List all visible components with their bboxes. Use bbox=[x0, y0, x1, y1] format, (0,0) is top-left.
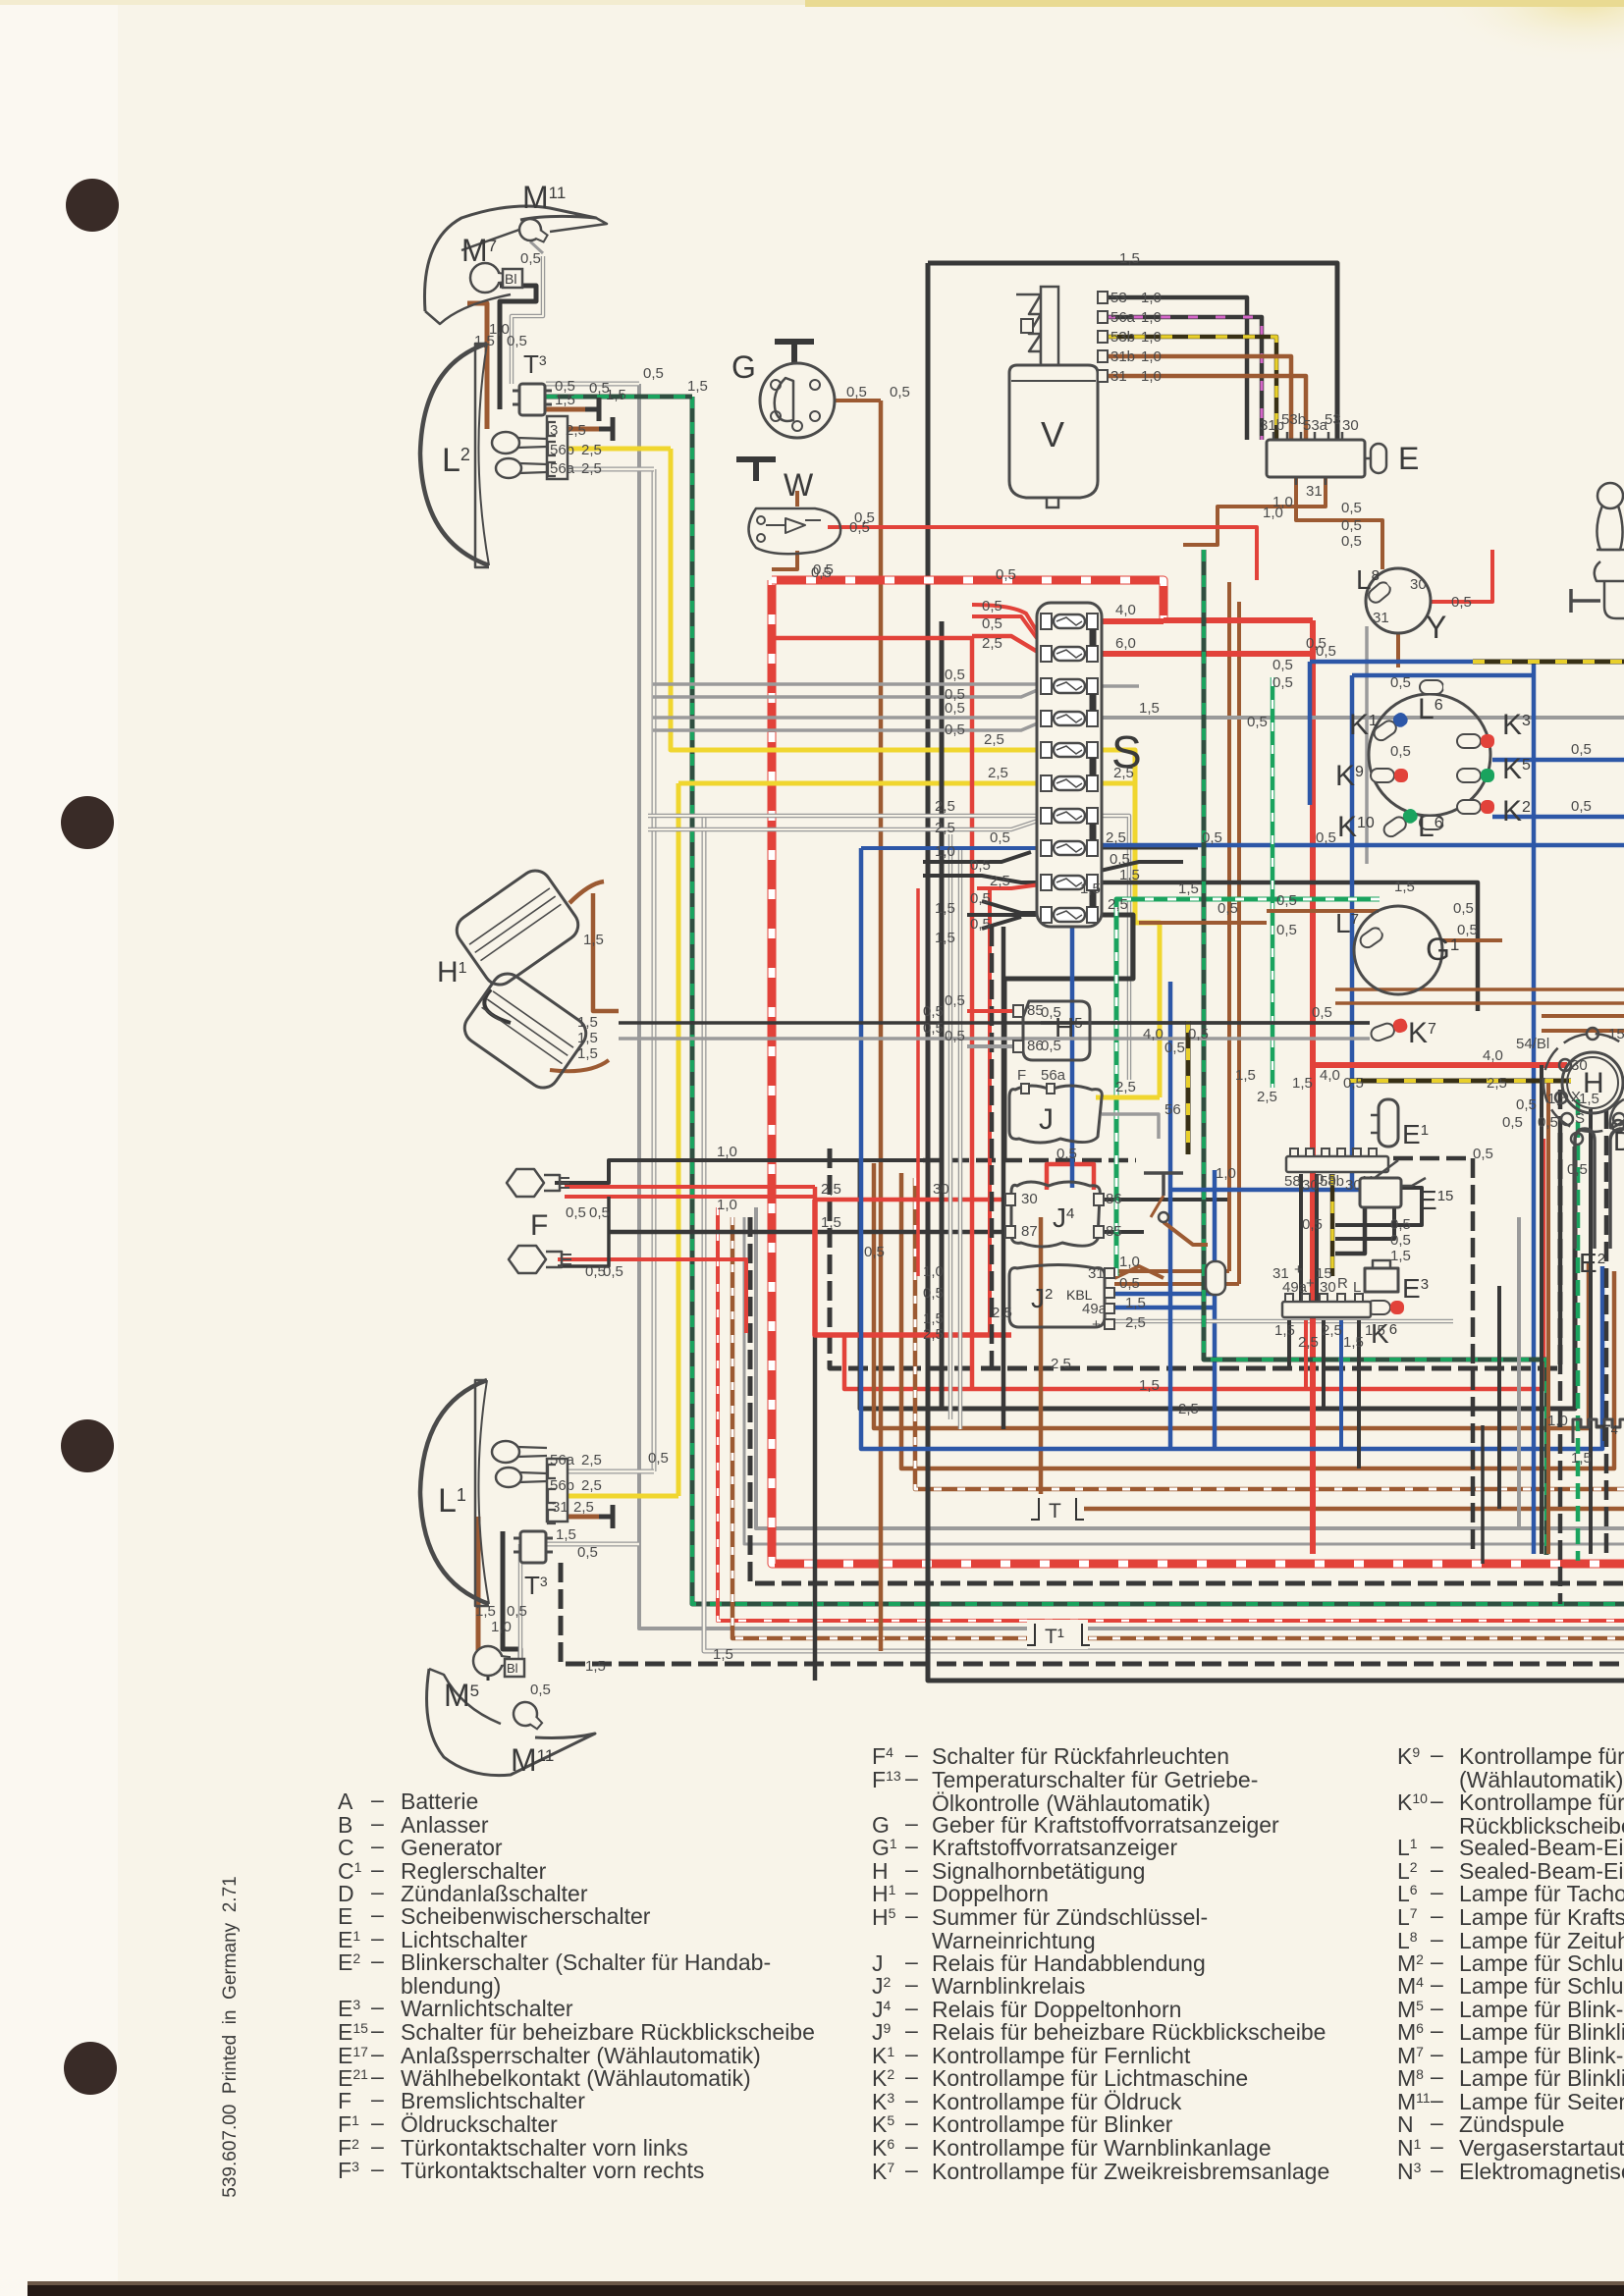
svg-text:Warnlichtschalter: Warnlichtschalter bbox=[401, 1996, 573, 2021]
svg-text:Warnblinkrelais: Warnblinkrelais bbox=[932, 1973, 1085, 1999]
svg-text:–: – bbox=[1431, 2017, 1443, 2043]
svg-text:Zündspule: Zündspule bbox=[1459, 2111, 1564, 2137]
svg-text:0,5: 0,5 bbox=[1188, 1026, 1209, 1042]
svg-text:Kontrollampe für Lichtmaschine: Kontrollampe für Lichtmaschine bbox=[932, 2065, 1248, 2091]
svg-text:V: V bbox=[1041, 414, 1064, 454]
svg-text:Kontrollampe für beheizbare: Kontrollampe für beheizbare bbox=[1459, 1789, 1624, 1815]
svg-text:–: – bbox=[905, 2157, 918, 2182]
svg-text:31: 31 bbox=[1306, 483, 1323, 500]
svg-text:0,5: 0,5 bbox=[1451, 594, 1472, 611]
svg-text:Schalter für Rückfahrleuchten: Schalter für Rückfahrleuchten bbox=[932, 1743, 1229, 1769]
svg-text:56a: 56a bbox=[1110, 309, 1136, 326]
svg-text:–: – bbox=[905, 2109, 918, 2135]
svg-text:0,5: 0,5 bbox=[1473, 1146, 1493, 1162]
svg-text:4,0: 4,0 bbox=[1320, 1067, 1340, 1084]
svg-text:2,5: 2,5 bbox=[1178, 1401, 1199, 1417]
svg-text:0,5: 0,5 bbox=[1457, 922, 1478, 938]
svg-text:0,5: 0,5 bbox=[846, 384, 867, 400]
svg-text:–: – bbox=[371, 1787, 384, 1812]
svg-text:A: A bbox=[338, 1789, 353, 1814]
svg-text:1,5: 1,5 bbox=[1292, 1075, 1313, 1092]
svg-text:2,5: 2,5 bbox=[935, 820, 955, 836]
svg-text:0,5: 0,5 bbox=[1056, 1146, 1077, 1162]
svg-text:31: 31 bbox=[1272, 1265, 1289, 1282]
svg-text:1,5: 1,5 bbox=[1139, 700, 1160, 717]
svg-text:0,5: 0,5 bbox=[1571, 798, 1592, 815]
svg-text:15: 15 bbox=[1608, 1026, 1624, 1042]
svg-text:–: – bbox=[371, 2156, 384, 2181]
svg-text:0,5: 0,5 bbox=[589, 1204, 610, 1221]
svg-text:1,5: 1,5 bbox=[1365, 1322, 1385, 1339]
svg-text:Schalter für beheizbare Rückbl: Schalter für beheizbare Rückblickscheibe bbox=[401, 2019, 815, 2045]
svg-text:0,5: 0,5 bbox=[970, 890, 991, 907]
svg-text:G: G bbox=[731, 349, 756, 385]
svg-text:–: – bbox=[905, 1971, 918, 1997]
svg-text:1,0: 1,0 bbox=[1272, 494, 1293, 510]
svg-text:0,5: 0,5 bbox=[507, 1603, 527, 1620]
svg-text:Türkontaktschalter vorn rechts: Türkontaktschalter vorn rechts bbox=[401, 2158, 704, 2183]
svg-text:2,5: 2,5 bbox=[573, 1499, 594, 1516]
svg-text:1,5: 1,5 bbox=[475, 1603, 496, 1620]
svg-text:2,5: 2,5 bbox=[581, 1452, 602, 1468]
svg-text:0,5: 0,5 bbox=[1218, 900, 1238, 917]
svg-text:2,5: 2,5 bbox=[1106, 829, 1126, 846]
svg-text:58: 58 bbox=[1284, 1173, 1301, 1190]
svg-text:31: 31 bbox=[1110, 368, 1127, 385]
svg-text:6,0: 6,0 bbox=[1115, 635, 1136, 652]
svg-text:1,0: 1,0 bbox=[923, 1263, 944, 1280]
svg-text:2,5: 2,5 bbox=[988, 765, 1008, 781]
svg-text:0,5: 0,5 bbox=[1272, 657, 1293, 673]
svg-text:Doppelhorn: Doppelhorn bbox=[932, 1881, 1049, 1906]
svg-text:0,5: 0,5 bbox=[530, 1682, 551, 1698]
svg-text:Sealed-Beam-Einsatz links: Sealed-Beam-Einsatz links bbox=[1459, 1835, 1624, 1860]
svg-text:53: 53 bbox=[1110, 290, 1127, 306]
svg-text:3: 3 bbox=[550, 422, 558, 439]
svg-text:–: – bbox=[1431, 1788, 1443, 1813]
svg-text:56a: 56a bbox=[1041, 1067, 1066, 1084]
svg-text:0,5: 0,5 bbox=[643, 365, 664, 382]
svg-text:Lampe für Blinklicht vorn link: Lampe für Blinklicht vorn links bbox=[1459, 2019, 1624, 2045]
svg-text:Lampe für Blinklicht vorn rech: Lampe für Blinklicht vorn rechts bbox=[1459, 2065, 1624, 2091]
svg-text:–: – bbox=[905, 1902, 918, 1928]
svg-text:1,5: 1,5 bbox=[687, 378, 708, 395]
svg-text:1,0: 1,0 bbox=[935, 843, 955, 860]
svg-text:0,5: 0,5 bbox=[1110, 851, 1130, 868]
svg-text:0,5: 0,5 bbox=[1302, 1216, 1323, 1233]
svg-text:1,5: 1,5 bbox=[1547, 1091, 1568, 1107]
svg-text:Kraftstoffvorratsanzeiger: Kraftstoffvorratsanzeiger bbox=[932, 1835, 1177, 1860]
svg-text:0,5: 0,5 bbox=[1316, 643, 1336, 660]
svg-text:1,5: 1,5 bbox=[923, 1310, 944, 1327]
svg-text:Kontrollampe für Blinker: Kontrollampe für Blinker bbox=[932, 2111, 1173, 2137]
svg-text:0,5: 0,5 bbox=[1390, 1216, 1411, 1233]
svg-text:Relais für beheizbare Rückblic: Relais für beheizbare Rückblickscheibe bbox=[932, 2019, 1326, 2045]
svg-text:1,5: 1,5 bbox=[1178, 881, 1199, 897]
svg-text:J: J bbox=[1039, 1103, 1054, 1136]
svg-text:31: 31 bbox=[1373, 610, 1389, 626]
svg-text:1,0: 1,0 bbox=[717, 1144, 737, 1160]
svg-text:1,0: 1,0 bbox=[1216, 1165, 1236, 1182]
svg-text:1,5: 1,5 bbox=[1139, 1377, 1160, 1394]
svg-text:85: 85 bbox=[1106, 1223, 1122, 1240]
svg-text:0,5: 0,5 bbox=[1502, 1114, 1523, 1131]
svg-text:T: T bbox=[1049, 1500, 1061, 1522]
svg-text:0,5: 0,5 bbox=[970, 857, 991, 874]
svg-text:0,5: 0,5 bbox=[923, 1020, 944, 1037]
svg-text:–: – bbox=[905, 1833, 918, 1858]
svg-text:R: R bbox=[1337, 1275, 1348, 1292]
svg-text:30: 30 bbox=[1342, 417, 1359, 434]
svg-text:0,5: 0,5 bbox=[1316, 1171, 1336, 1188]
svg-text:–: – bbox=[371, 2017, 384, 2043]
svg-text:1,5: 1,5 bbox=[1119, 867, 1140, 883]
svg-text:1,5: 1,5 bbox=[1080, 881, 1101, 897]
svg-text:1,5: 1,5 bbox=[1394, 879, 1415, 895]
svg-text:0,5: 0,5 bbox=[945, 721, 965, 738]
svg-text:2,5: 2,5 bbox=[923, 1326, 944, 1343]
svg-text:2,5: 2,5 bbox=[1125, 1314, 1146, 1331]
svg-text:2,5: 2,5 bbox=[1113, 765, 1134, 781]
svg-text:1,0: 1,0 bbox=[1547, 1413, 1568, 1429]
svg-text:Bremslichtschalter: Bremslichtschalter bbox=[401, 2088, 585, 2113]
svg-text:–: – bbox=[1431, 2063, 1443, 2089]
svg-text:0,5: 0,5 bbox=[864, 1244, 885, 1260]
svg-text:1,5: 1,5 bbox=[1235, 1067, 1256, 1084]
svg-text:Generator: Generator bbox=[401, 1835, 503, 1860]
svg-text:1,5: 1,5 bbox=[606, 387, 626, 403]
svg-text:0,5: 0,5 bbox=[1276, 922, 1297, 938]
svg-text:Bl: Bl bbox=[505, 271, 516, 287]
svg-text:0,5: 0,5 bbox=[1164, 1040, 1185, 1056]
svg-text:1,0: 1,0 bbox=[1141, 329, 1162, 346]
svg-text:–: – bbox=[1431, 1833, 1443, 1858]
svg-text:E: E bbox=[1398, 441, 1419, 476]
svg-text:0,5: 0,5 bbox=[854, 509, 875, 526]
svg-text:87: 87 bbox=[1021, 1223, 1038, 1240]
svg-text:1,5: 1,5 bbox=[556, 1526, 576, 1543]
svg-text:+: + bbox=[1092, 1316, 1101, 1333]
svg-text:0,5: 0,5 bbox=[945, 700, 965, 717]
svg-text:2,5: 2,5 bbox=[821, 1181, 841, 1198]
svg-text:1,5: 1,5 bbox=[577, 1014, 598, 1031]
svg-text:56: 56 bbox=[1164, 1101, 1181, 1118]
svg-text:4,0: 4,0 bbox=[1143, 1026, 1164, 1042]
svg-text:1,0: 1,0 bbox=[717, 1197, 737, 1213]
svg-text:N: N bbox=[1397, 2111, 1414, 2137]
svg-text:1,5: 1,5 bbox=[1343, 1334, 1364, 1351]
svg-text:–: – bbox=[1431, 1741, 1443, 1767]
svg-text:Kontrollampe für Anlaßsperre: Kontrollampe für Anlaßsperre bbox=[1459, 1743, 1624, 1769]
svg-text:Blinkerschalter (Schalter für: Blinkerschalter (Schalter für Handab- bbox=[401, 1949, 771, 1975]
svg-text:0,5: 0,5 bbox=[1202, 829, 1222, 846]
svg-text:Temperaturschalter für Getrieb: Temperaturschalter für Getriebe- bbox=[932, 1767, 1258, 1792]
svg-text:+: + bbox=[1306, 1275, 1315, 1292]
svg-text:W: W bbox=[784, 467, 814, 503]
svg-text:1,5: 1,5 bbox=[935, 930, 955, 946]
svg-text:Kontrollampe für Zweikreisbrem: Kontrollampe für Zweikreisbremsanlage bbox=[932, 2159, 1329, 2184]
svg-text:–: – bbox=[905, 2133, 918, 2159]
svg-text:0,5: 0,5 bbox=[1390, 743, 1411, 760]
svg-text:1,0: 1,0 bbox=[1141, 290, 1162, 306]
svg-text:30: 30 bbox=[1021, 1191, 1038, 1207]
svg-text:F: F bbox=[338, 2088, 352, 2113]
svg-text:4,0: 4,0 bbox=[1483, 1047, 1503, 1064]
svg-text:–: – bbox=[1431, 1879, 1443, 1904]
svg-text:–: – bbox=[1431, 2157, 1443, 2182]
svg-text:Elektromagnetische Abschaltung: Elektromagnetische Abschaltung bbox=[1459, 2159, 1624, 2184]
svg-text:0,5: 0,5 bbox=[970, 916, 991, 933]
svg-text:0,5: 0,5 bbox=[1247, 714, 1268, 730]
svg-text:0,5: 0,5 bbox=[1341, 500, 1362, 516]
svg-text:–: – bbox=[1431, 1971, 1443, 1997]
svg-text:C: C bbox=[338, 1835, 354, 1860]
svg-text:Y: Y bbox=[1426, 610, 1446, 645]
svg-text:–: – bbox=[371, 1901, 384, 1927]
svg-text:Scheibenwischerschalter: Scheibenwischerschalter bbox=[401, 1903, 651, 1929]
svg-text:0,5: 0,5 bbox=[1571, 741, 1592, 758]
svg-text:31b: 31b bbox=[1110, 348, 1135, 365]
svg-text:1,5: 1,5 bbox=[1274, 1322, 1295, 1339]
svg-text:0,5: 0,5 bbox=[1276, 892, 1297, 909]
svg-text:Vergaserstartautomatik: Vergaserstartautomatik bbox=[1459, 2135, 1624, 2161]
svg-text:–: – bbox=[1431, 2133, 1443, 2159]
svg-text:0,5: 0,5 bbox=[1567, 1161, 1588, 1178]
svg-text:0,5: 0,5 bbox=[1316, 829, 1336, 846]
svg-text:539.607.00 Printed in Germa: 539.607.00 Printed in Germany 2.71 bbox=[220, 1876, 241, 2197]
svg-text:Lampe für Tachometerbeleuchtun: Lampe für Tachometerbeleuchtung bbox=[1459, 1881, 1624, 1906]
svg-text:30: 30 bbox=[1410, 576, 1427, 593]
svg-text:–: – bbox=[905, 2017, 918, 2043]
svg-text:2,5: 2,5 bbox=[1322, 1322, 1342, 1339]
svg-text:0,5: 0,5 bbox=[1390, 1232, 1411, 1249]
svg-text:1,5: 1,5 bbox=[585, 1658, 606, 1675]
svg-text:49a: 49a bbox=[1082, 1301, 1108, 1317]
svg-text:–: – bbox=[905, 1879, 918, 1904]
svg-text:31: 31 bbox=[1088, 1265, 1105, 1282]
svg-text:1,5: 1,5 bbox=[577, 1045, 598, 1062]
svg-text:–: – bbox=[371, 2109, 384, 2135]
svg-text:E: E bbox=[338, 1903, 352, 1929]
svg-text:0,5: 0,5 bbox=[1119, 1275, 1140, 1292]
svg-text:2,5: 2,5 bbox=[581, 442, 602, 458]
svg-text:1,5: 1,5 bbox=[1119, 250, 1140, 267]
svg-text:31: 31 bbox=[552, 1499, 568, 1516]
svg-text:15: 15 bbox=[1316, 1265, 1332, 1282]
svg-text:0,5: 0,5 bbox=[1390, 674, 1411, 691]
svg-text:2,5: 2,5 bbox=[982, 635, 1002, 652]
svg-text:56a: 56a bbox=[550, 460, 575, 477]
svg-text:2,5: 2,5 bbox=[581, 1477, 602, 1494]
svg-text:F: F bbox=[1017, 1067, 1026, 1084]
svg-text:Kontrollampe für Warnblinkanla: Kontrollampe für Warnblinkanlage bbox=[932, 2135, 1272, 2161]
svg-text:0,5: 0,5 bbox=[577, 1544, 598, 1561]
svg-text:53b: 53b bbox=[1110, 329, 1135, 346]
svg-text:30: 30 bbox=[933, 1181, 949, 1198]
svg-text:0,5: 0,5 bbox=[945, 667, 965, 683]
svg-text:0,5: 0,5 bbox=[990, 829, 1010, 846]
svg-text:86: 86 bbox=[1106, 1191, 1122, 1207]
svg-text:1,5: 1,5 bbox=[935, 900, 955, 917]
svg-text:0,5: 0,5 bbox=[1341, 517, 1362, 534]
svg-text:1,5: 1,5 bbox=[1579, 1091, 1599, 1107]
svg-text:2,5: 2,5 bbox=[984, 731, 1004, 748]
svg-text:0,5: 0,5 bbox=[1516, 1096, 1537, 1113]
svg-text:2,5: 2,5 bbox=[1108, 896, 1128, 913]
svg-text:1,0: 1,0 bbox=[1119, 1254, 1140, 1270]
svg-text:4,0: 4,0 bbox=[1115, 602, 1136, 618]
svg-text:54/Bl: 54/Bl bbox=[1516, 1036, 1549, 1052]
svg-text:–: – bbox=[371, 2086, 384, 2111]
svg-text:1,5: 1,5 bbox=[577, 1030, 598, 1046]
svg-text:53: 53 bbox=[1325, 411, 1341, 428]
svg-text:2,5: 2,5 bbox=[1115, 1079, 1136, 1095]
svg-text:56b: 56b bbox=[550, 442, 574, 458]
svg-text:Lampe für Kraftstoffanzeige: Lampe für Kraftstoffanzeige bbox=[1459, 1904, 1624, 1930]
svg-text:0,5: 0,5 bbox=[890, 384, 910, 400]
svg-text:1,5: 1,5 bbox=[583, 932, 604, 948]
svg-text:0,5: 0,5 bbox=[1341, 533, 1362, 550]
svg-text:Bl: Bl bbox=[507, 1661, 518, 1676]
svg-text:1,0: 1,0 bbox=[491, 1619, 512, 1635]
svg-text:0,5: 0,5 bbox=[923, 1003, 944, 1020]
svg-text:56b: 56b bbox=[550, 1477, 574, 1494]
svg-text:–: – bbox=[1431, 2109, 1443, 2135]
svg-text:0,5: 0,5 bbox=[1538, 1114, 1558, 1131]
svg-text:2,5: 2,5 bbox=[992, 1305, 1012, 1321]
svg-text:+: + bbox=[1294, 1261, 1303, 1278]
svg-text:0,5: 0,5 bbox=[1272, 674, 1293, 691]
svg-text:0,5: 0,5 bbox=[566, 1204, 586, 1221]
svg-text:1,5: 1,5 bbox=[1125, 1295, 1146, 1311]
svg-text:–: – bbox=[371, 1948, 384, 1973]
svg-text:2,5: 2,5 bbox=[566, 422, 586, 439]
svg-text:L: L bbox=[1353, 1279, 1361, 1296]
svg-text:1,0: 1,0 bbox=[1141, 368, 1162, 385]
svg-text:Batterie: Batterie bbox=[401, 1789, 478, 1814]
svg-text:–: – bbox=[905, 1741, 918, 1767]
svg-text:S: S bbox=[1575, 1110, 1585, 1127]
svg-text:1,0: 1,0 bbox=[1141, 348, 1162, 365]
svg-text:56a: 56a bbox=[550, 1452, 575, 1468]
svg-text:–: – bbox=[905, 1765, 918, 1790]
svg-text:1,0: 1,0 bbox=[1141, 309, 1162, 326]
svg-text:1,5: 1,5 bbox=[555, 392, 575, 408]
svg-text:Summer für Zündschlüssel-: Summer für Zündschlüssel- bbox=[932, 1904, 1208, 1930]
svg-text:0,5: 0,5 bbox=[603, 1263, 623, 1280]
svg-text:0,5: 0,5 bbox=[1343, 1075, 1364, 1092]
svg-text:85: 85 bbox=[1027, 1002, 1044, 1019]
svg-text:0,5: 0,5 bbox=[996, 566, 1016, 583]
svg-text:Öldruckschalter: Öldruckschalter bbox=[401, 2111, 558, 2137]
svg-text:1,5: 1,5 bbox=[713, 1646, 733, 1663]
svg-text:–: – bbox=[371, 1994, 384, 2019]
svg-text:0,5: 0,5 bbox=[811, 564, 832, 581]
svg-text:1,5: 1,5 bbox=[821, 1214, 841, 1231]
svg-text:0,5: 0,5 bbox=[1312, 1004, 1332, 1021]
svg-text:1,5: 1,5 bbox=[1571, 1450, 1592, 1467]
svg-text:2,5: 2,5 bbox=[1487, 1075, 1507, 1092]
svg-text:0,5: 0,5 bbox=[945, 992, 965, 1009]
svg-text:0,5: 0,5 bbox=[982, 598, 1002, 614]
svg-text:2,5: 2,5 bbox=[1298, 1334, 1319, 1351]
svg-text:Lampe für Schlußlicht rechts: Lampe für Schlußlicht rechts bbox=[1459, 1973, 1624, 1999]
svg-text:2,5: 2,5 bbox=[935, 798, 955, 815]
svg-text:F: F bbox=[530, 1209, 548, 1242]
svg-text:–: – bbox=[905, 2063, 918, 2089]
svg-text:T¹: T¹ bbox=[1045, 1626, 1064, 1648]
svg-text:–: – bbox=[1431, 1902, 1443, 1928]
svg-text:2,5: 2,5 bbox=[1051, 1356, 1071, 1372]
svg-text:86: 86 bbox=[1027, 1038, 1044, 1054]
svg-text:0,5: 0,5 bbox=[648, 1450, 669, 1467]
svg-text:2,5: 2,5 bbox=[990, 873, 1010, 889]
svg-text:0,5: 0,5 bbox=[945, 1028, 965, 1044]
svg-text:0,5: 0,5 bbox=[520, 250, 541, 267]
svg-text:–: – bbox=[371, 1833, 384, 1858]
svg-text:0,5: 0,5 bbox=[507, 333, 527, 349]
svg-text:1,5: 1,5 bbox=[1390, 1248, 1411, 1264]
svg-text:0,5: 0,5 bbox=[982, 615, 1002, 632]
svg-text:0,5: 0,5 bbox=[923, 1285, 944, 1302]
svg-text:0,5: 0,5 bbox=[1453, 900, 1474, 917]
svg-text:2,5: 2,5 bbox=[581, 460, 602, 477]
svg-text:2,5: 2,5 bbox=[1257, 1089, 1277, 1105]
svg-text:30: 30 bbox=[1571, 1057, 1588, 1074]
